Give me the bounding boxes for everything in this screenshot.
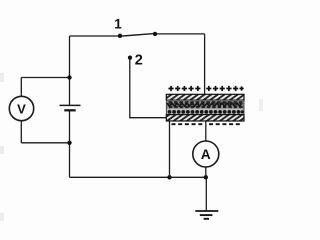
wire: left rail top segment (top-left corner down to battery) — [69, 36, 71, 105]
scan smudge left edge lower — [0, 146, 4, 154]
wire: bottom rail — [70, 176, 207, 178]
induced - charges dashed row below plate (left group) — [172, 123, 204, 125]
contact dot 2 — [128, 56, 132, 60]
wire: voltmeter branch top vertical — [20, 78, 22, 97]
wire: ammeter to bottom rail — [205, 167, 207, 177]
switch throw dot — [153, 32, 157, 36]
wire: capacitor bottom plate to ammeter — [205, 121, 207, 141]
scan smudge right edge — [259, 99, 263, 111]
svg-text:V: V — [17, 101, 26, 116]
svg-text:A: A — [201, 147, 211, 162]
capacitor free + charges row (right group) — [206, 86, 244, 91]
dielectric lower polarization charge dots row — [168, 110, 244, 114]
switch arm from pole 1 toward throw — [120, 34, 154, 37]
wire: top rail from switch throw to top-right corner — [155, 33, 205, 35]
junction node: voltmeter bottom tap — [67, 141, 71, 145]
wire: voltmeter branch bottom vertical — [20, 121, 22, 143]
switch pole dot 1 — [118, 34, 122, 38]
scan smudge left edge bottom — [0, 213, 4, 221]
svg-text:2: 2 — [135, 53, 143, 69]
junction node: voltmeter top tap — [67, 75, 71, 79]
capacitor bottom plate (hatched) — [166, 115, 244, 121]
dielectric upper dark polarization band — [167, 101, 244, 109]
wire: voltmeter branch top horizontal — [21, 77, 69, 79]
ammeter A — [193, 141, 219, 167]
wire: top rail from left corner to switch pole 1 — [70, 35, 120, 37]
wire: left rail bottom segment (battery to bottom-left corner) — [69, 110, 71, 177]
dielectric slab body — [166, 100, 244, 115]
wire: voltmeter branch bottom horizontal — [21, 142, 69, 144]
junction node: bottom rail left capacitor drop — [167, 175, 171, 179]
junction node: bottom rail ammeter — [204, 175, 208, 179]
capacitor free + charges row (left group) — [168, 86, 200, 91]
wire: ground stem — [205, 177, 207, 211]
svg-text:1: 1 — [114, 17, 122, 32]
wire: right drop from top rail to capacitor top plate — [204, 34, 206, 95]
wire: from contact 2 down and right to capacitor bottom plate — [130, 59, 167, 118]
scan smudge left edge upper — [0, 73, 4, 82]
wire: capacitor bottom plate left drop to bottom rail — [169, 121, 171, 177]
voltmeter V — [9, 96, 33, 120]
capacitor top plate (hatched) — [166, 94, 244, 100]
battery cell — [60, 105, 81, 110]
induced - charges dashed row below plate (right group) — [209, 123, 240, 125]
ground symbol — [195, 211, 218, 219]
